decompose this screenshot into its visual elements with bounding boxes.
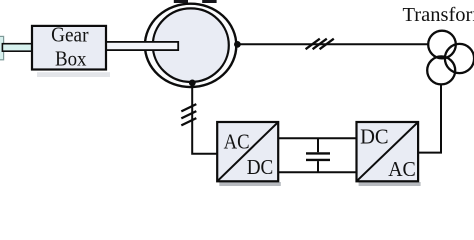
AC/DC diagonal — [218, 123, 277, 180]
svg-text:AC: AC — [388, 157, 416, 181]
rotor wire to converter — [192, 83, 217, 154]
turbine hub — [0, 36, 4, 59]
svg-text:Transformer: Transformer — [403, 4, 474, 26]
gearbox — [32, 26, 106, 70]
stator wire to grid — [237, 43, 428, 45]
converter shadow right — [359, 182, 421, 186]
svg-text:Gear: Gear — [51, 22, 88, 46]
DC link top wire — [278, 137, 357, 139]
svg-text:DC: DC — [360, 125, 389, 149]
generator outer ring — [145, 4, 236, 87]
converter shadow left — [219, 182, 280, 186]
high-speed shaft — [106, 42, 178, 50]
transformer winding top — [428, 31, 456, 59]
three-phase slashes on stator wire — [306, 39, 334, 50]
gearbox shadow — [37, 72, 110, 77]
AC/DC converter box — [217, 122, 278, 181]
svg-text:AC: AC — [224, 129, 250, 153]
rotor node dot — [189, 80, 196, 87]
capacitor C — [306, 138, 330, 172]
generator inner circle — [153, 8, 229, 82]
svg-text:Box: Box — [55, 47, 87, 71]
transformer winding right — [445, 44, 474, 73]
transformer winding bottom — [427, 56, 455, 84]
DC/AC converter box — [357, 122, 419, 181]
stator node dot — [234, 41, 241, 48]
grid-side wire from DC/AC to transformer — [418, 85, 441, 153]
low-speed shaft — [2, 44, 32, 52]
DC/AC diagonal — [358, 123, 418, 180]
cropped blade mark left — [174, 0, 188, 3]
three-phase slashes on rotor wire — [181, 104, 196, 125]
cropped blade mark right — [202, 0, 216, 3]
svg-text:DC: DC — [247, 155, 274, 179]
DC link bottom wire — [278, 171, 357, 173]
